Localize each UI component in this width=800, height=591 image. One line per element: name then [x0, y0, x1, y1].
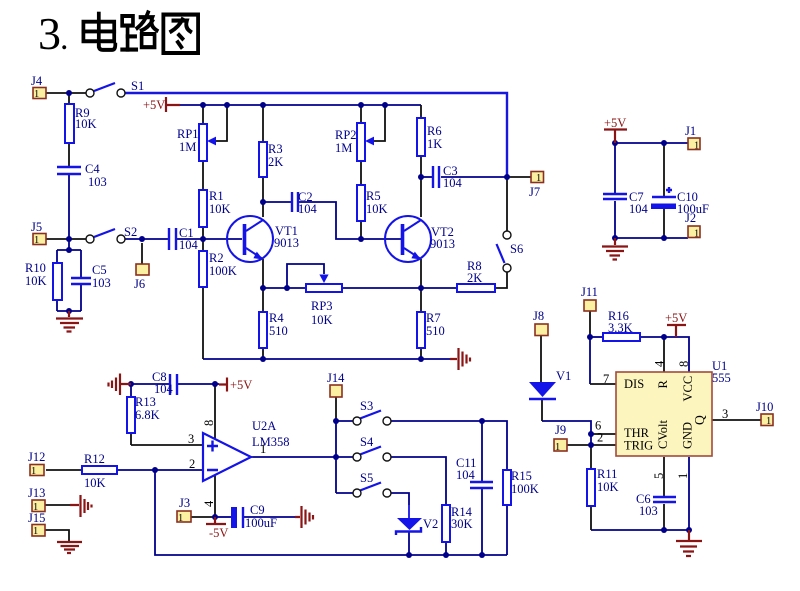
svg-text:1: 1 — [31, 466, 36, 477]
svg-text:+5V: +5V — [230, 378, 252, 392]
svg-text:104: 104 — [298, 202, 318, 216]
svg-text:10K: 10K — [75, 117, 97, 131]
svg-text:1: 1 — [555, 442, 560, 453]
svg-text:R10: R10 — [25, 261, 46, 275]
svg-text:RP1: RP1 — [177, 127, 199, 141]
svg-text:103: 103 — [639, 504, 658, 518]
svg-text:1: 1 — [178, 513, 183, 524]
svg-text:2: 2 — [597, 431, 603, 445]
svg-text:1M: 1M — [335, 141, 352, 155]
svg-text:2K: 2K — [467, 271, 482, 285]
svg-text:J7: J7 — [529, 185, 540, 199]
svg-text:J14: J14 — [327, 371, 345, 385]
svg-text:V2: V2 — [423, 517, 438, 531]
svg-text:C4: C4 — [85, 162, 100, 176]
svg-text:J6: J6 — [134, 277, 145, 291]
svg-text:1K: 1K — [427, 137, 442, 151]
svg-text:4: 4 — [202, 500, 216, 507]
svg-text:+5V: +5V — [143, 98, 165, 112]
svg-text:1: 1 — [676, 473, 690, 479]
svg-text:J3: J3 — [179, 496, 190, 510]
svg-text:10K: 10K — [311, 313, 333, 327]
svg-text:S5: S5 — [360, 471, 373, 485]
svg-text:R1: R1 — [209, 189, 224, 203]
svg-text:1: 1 — [694, 141, 699, 152]
svg-text:100K: 100K — [209, 264, 237, 278]
svg-text:R11: R11 — [597, 467, 617, 481]
svg-text:C5: C5 — [92, 263, 107, 277]
svg-text:3: 3 — [188, 432, 194, 446]
svg-text:S6: S6 — [510, 242, 523, 256]
svg-text:S1: S1 — [131, 79, 144, 93]
svg-text:S4: S4 — [360, 435, 374, 449]
svg-text:-5V: -5V — [209, 526, 228, 540]
svg-text:J11: J11 — [581, 285, 598, 299]
svg-text:R7: R7 — [426, 311, 441, 325]
svg-text:R2: R2 — [209, 251, 224, 265]
svg-text:R3: R3 — [268, 142, 283, 156]
svg-text:103: 103 — [88, 175, 107, 189]
svg-text:103: 103 — [92, 276, 111, 290]
svg-text:R13: R13 — [135, 395, 156, 409]
svg-text:9013: 9013 — [274, 236, 299, 250]
svg-text:7: 7 — [603, 372, 609, 386]
svg-text:100K: 100K — [511, 482, 539, 496]
svg-text:104: 104 — [456, 468, 476, 482]
svg-text:10K: 10K — [84, 476, 106, 490]
svg-text:4: 4 — [653, 360, 667, 367]
svg-text:10K: 10K — [25, 274, 47, 288]
svg-text:J15: J15 — [28, 511, 45, 525]
svg-text:.: . — [60, 20, 69, 57]
svg-text:TRIG: TRIG — [624, 439, 653, 453]
svg-text:9013: 9013 — [430, 237, 455, 251]
svg-text:1: 1 — [34, 235, 39, 246]
svg-text:104: 104 — [443, 176, 463, 190]
svg-text:R4: R4 — [269, 311, 284, 325]
svg-text:J8: J8 — [533, 309, 544, 323]
svg-text:510: 510 — [269, 324, 288, 338]
svg-text:104: 104 — [629, 202, 649, 216]
svg-text:1M: 1M — [179, 140, 196, 154]
svg-text:J13: J13 — [28, 486, 45, 500]
svg-text:3: 3 — [722, 407, 728, 421]
svg-text:104: 104 — [154, 382, 174, 396]
svg-text:10K: 10K — [597, 480, 619, 494]
svg-text:8: 8 — [202, 420, 216, 426]
svg-text:J10: J10 — [756, 400, 773, 414]
svg-text:R: R — [656, 380, 670, 389]
svg-text:RP3: RP3 — [311, 299, 333, 313]
svg-text:RP2: RP2 — [335, 128, 357, 142]
svg-text:S3: S3 — [360, 399, 373, 413]
svg-text:10K: 10K — [366, 202, 388, 216]
svg-text:DIS: DIS — [624, 377, 644, 391]
svg-text:6.8K: 6.8K — [135, 408, 160, 422]
svg-text:2K: 2K — [268, 155, 283, 169]
svg-text:R12: R12 — [84, 452, 105, 466]
svg-text:CVolt: CVolt — [656, 420, 670, 449]
svg-text:J9: J9 — [555, 423, 566, 437]
svg-text:Q: Q — [692, 415, 707, 425]
svg-text:J1: J1 — [685, 124, 696, 138]
svg-text:100uF: 100uF — [677, 202, 709, 216]
svg-text:VCC: VCC — [681, 376, 695, 402]
svg-text:1: 1 — [536, 173, 541, 184]
svg-text:U2A: U2A — [252, 419, 276, 433]
svg-text:510: 510 — [426, 324, 445, 338]
svg-text:555: 555 — [712, 371, 731, 385]
svg-text:S2: S2 — [124, 225, 137, 239]
svg-text:1: 1 — [694, 229, 699, 240]
svg-text:R6: R6 — [427, 124, 442, 138]
svg-text:3.3K: 3.3K — [608, 321, 633, 335]
svg-text:J5: J5 — [31, 220, 42, 234]
svg-text:+5V: +5V — [604, 116, 626, 130]
svg-text:30K: 30K — [451, 517, 473, 531]
svg-text:10K: 10K — [209, 202, 231, 216]
svg-text:1: 1 — [34, 89, 39, 100]
svg-text:5: 5 — [652, 473, 666, 479]
svg-text:8: 8 — [677, 361, 691, 367]
svg-text:1: 1 — [33, 526, 38, 537]
svg-text:104: 104 — [179, 238, 199, 252]
svg-text:C9: C9 — [250, 503, 265, 517]
svg-text:J4: J4 — [31, 74, 43, 88]
svg-text:LM358: LM358 — [252, 435, 290, 449]
svg-text:R5: R5 — [366, 189, 381, 203]
svg-text:1: 1 — [766, 416, 771, 427]
svg-text:2: 2 — [189, 457, 195, 471]
svg-text:100uF: 100uF — [245, 516, 277, 530]
svg-text:3: 3 — [38, 8, 61, 59]
svg-text:R15: R15 — [511, 469, 532, 483]
svg-text:+5V: +5V — [665, 311, 687, 325]
svg-text:J12: J12 — [28, 450, 45, 464]
svg-text:V1: V1 — [556, 369, 571, 383]
